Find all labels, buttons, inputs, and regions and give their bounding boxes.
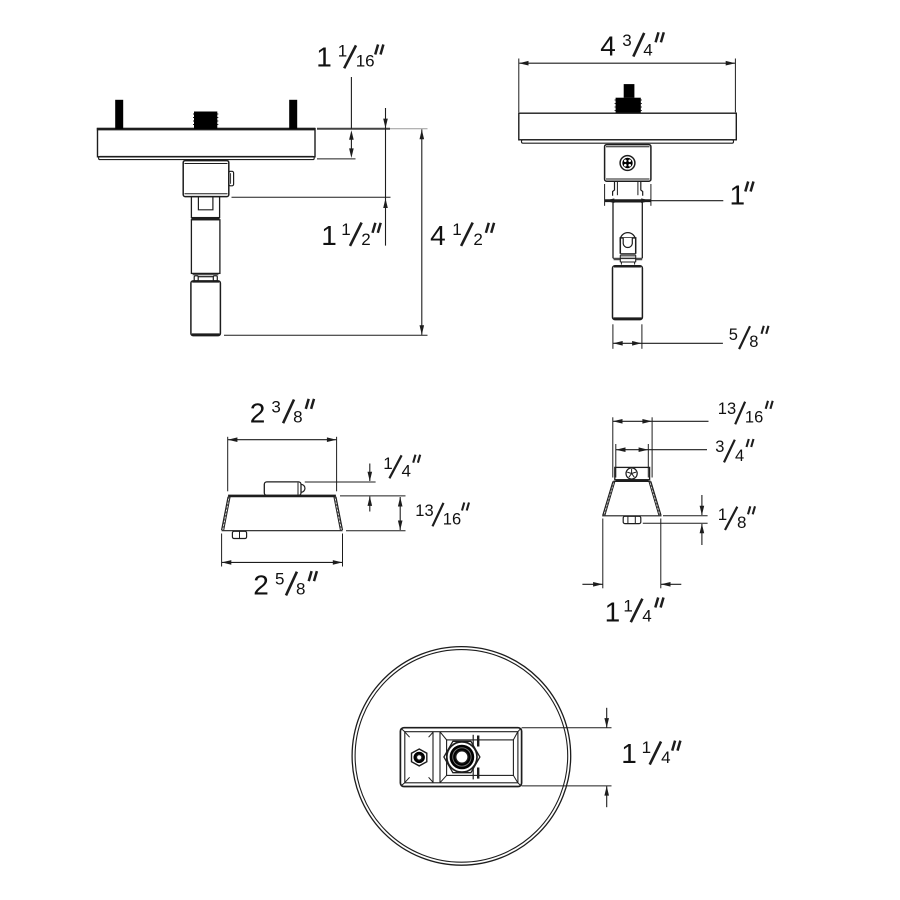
svg-text:1: 1: [338, 42, 347, 61]
svg-text:13: 13: [718, 400, 736, 418]
svg-text:16: 16: [745, 409, 763, 427]
svg-text:1: 1: [341, 220, 350, 239]
svg-text:1: 1: [321, 220, 337, 251]
svg-text:2: 2: [250, 397, 266, 428]
svg-text:1: 1: [718, 505, 727, 524]
svg-text:1: 1: [383, 454, 392, 473]
svg-text:3: 3: [622, 31, 631, 50]
svg-text:3: 3: [271, 397, 280, 416]
svg-text:2: 2: [473, 230, 482, 249]
svg-text:1: 1: [316, 41, 332, 72]
svg-text:2: 2: [361, 230, 370, 249]
svg-text:4: 4: [643, 41, 652, 60]
svg-text:5: 5: [729, 326, 738, 344]
svg-text:13: 13: [415, 502, 433, 520]
svg-text:8: 8: [293, 407, 302, 426]
svg-text:4: 4: [402, 462, 411, 481]
svg-text:1: 1: [730, 180, 746, 211]
svg-text:4: 4: [430, 220, 446, 251]
svg-text:1: 1: [605, 596, 621, 627]
svg-text:4: 4: [600, 31, 616, 62]
svg-text:16: 16: [356, 51, 375, 70]
svg-text:1: 1: [621, 738, 637, 769]
svg-text:4: 4: [735, 447, 744, 465]
svg-text:1: 1: [642, 738, 651, 757]
svg-text:3: 3: [715, 438, 724, 456]
svg-text:8: 8: [296, 580, 305, 599]
svg-text:4: 4: [642, 606, 651, 625]
svg-text:5: 5: [275, 570, 284, 589]
svg-text:16: 16: [443, 511, 461, 529]
svg-text:2: 2: [253, 570, 269, 601]
svg-text:1: 1: [452, 220, 461, 239]
svg-text:8: 8: [749, 333, 758, 351]
svg-text:1: 1: [623, 596, 632, 615]
svg-text:8: 8: [737, 513, 746, 532]
svg-text:4: 4: [661, 748, 670, 767]
